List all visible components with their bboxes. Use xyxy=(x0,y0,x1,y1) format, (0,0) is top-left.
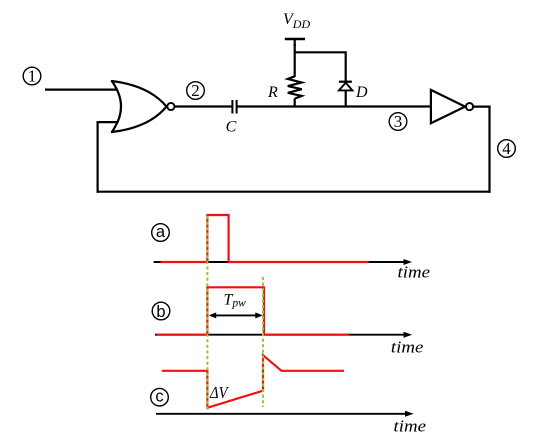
svg-text:time: time xyxy=(398,263,431,282)
inverter U2 xyxy=(431,90,465,123)
svg-text:time: time xyxy=(391,337,424,356)
svg-text:VDD: VDD xyxy=(283,11,310,31)
wire diode bottom to node 3 xyxy=(345,90,347,107)
svg-text:R: R xyxy=(267,84,278,101)
diode D triangle xyxy=(339,83,353,91)
svg-text:3: 3 xyxy=(394,112,403,131)
svg-text:ΔV: ΔV xyxy=(209,383,230,402)
svg-text:b: b xyxy=(156,303,165,321)
node b xyxy=(152,302,170,321)
node 1 xyxy=(23,67,41,86)
axis c xyxy=(156,411,414,417)
green marker line 1 xyxy=(206,216,208,410)
svg-text:4: 4 xyxy=(502,139,511,158)
axis b xyxy=(155,332,412,338)
node 2 xyxy=(187,81,205,100)
axis a xyxy=(154,259,412,265)
feedback wire bottom horizontal xyxy=(97,191,491,193)
waveform b (red pulse) xyxy=(157,287,349,334)
resistor R zigzag xyxy=(288,76,302,98)
feedback wire right vertical (node 4) xyxy=(488,106,490,193)
inverter output bubble xyxy=(466,103,473,110)
wire VDD bar down to resistor top xyxy=(294,44,296,77)
svg-text:D: D xyxy=(355,84,368,101)
wire feedback into NOR lower input xyxy=(97,121,119,123)
node 3 xyxy=(389,112,407,131)
wire inverter output xyxy=(473,105,490,107)
NOR gate U1 xyxy=(112,81,167,132)
node c xyxy=(151,388,169,407)
svg-text:Tpw: Tpw xyxy=(224,292,247,310)
svg-text:1: 1 xyxy=(28,67,37,86)
wire resistor bottom to node 3 xyxy=(294,99,296,107)
svg-text:time: time xyxy=(394,416,427,435)
svg-text:2: 2 xyxy=(191,81,200,100)
wire input node1 to NOR gate xyxy=(45,88,119,90)
node a xyxy=(152,223,170,242)
waveform a (red pulse) xyxy=(161,215,369,262)
svg-text:a: a xyxy=(156,223,166,241)
VDD supply bar xyxy=(285,39,305,46)
waveform c (red RC discharge/charge) xyxy=(162,355,344,408)
wire node 3 (capacitor to inverter) xyxy=(237,105,431,107)
svg-text:c: c xyxy=(155,388,163,406)
Tpw double arrow xyxy=(209,312,263,318)
svg-text:C: C xyxy=(226,119,237,136)
diode D cathode bar xyxy=(339,81,352,83)
wire node 2 (bubble to capacitor) xyxy=(175,105,233,107)
node 4 xyxy=(498,139,516,158)
wire VDD branch to diode top xyxy=(295,52,346,82)
feedback wire left vertical xyxy=(96,121,98,193)
green marker line 2 xyxy=(262,277,264,407)
NOR output bubble xyxy=(167,103,174,110)
capacitor C plates xyxy=(232,100,236,114)
